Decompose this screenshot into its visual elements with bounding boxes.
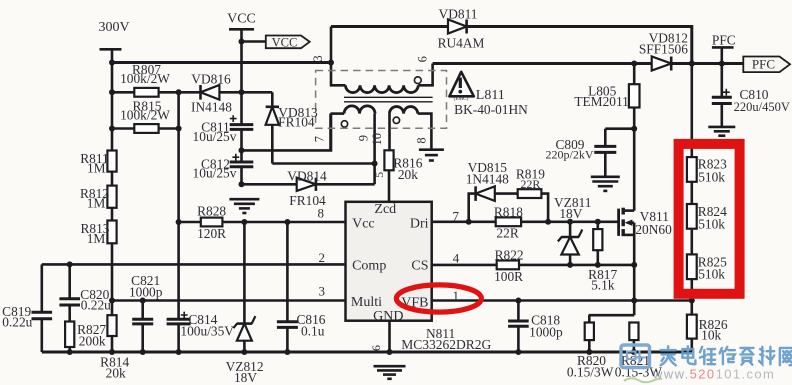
svg-text:22R: 22R	[496, 226, 518, 241]
svg-text:0.22u: 0.22u	[2, 314, 32, 329]
svg-text:VD811: VD811	[439, 6, 478, 21]
svg-text:510k: 510k	[698, 267, 725, 282]
svg-text:10u/25v: 10u/25v	[193, 165, 237, 180]
svg-text:3: 3	[311, 55, 325, 61]
svg-text:4: 4	[453, 251, 460, 266]
svg-text:20k: 20k	[106, 366, 126, 381]
svg-text:100k/2W: 100k/2W	[120, 107, 170, 122]
svg-text:GND: GND	[373, 309, 403, 324]
svg-text:Comp: Comp	[352, 259, 386, 274]
svg-text:VD816: VD816	[191, 72, 231, 87]
svg-text:10: 10	[370, 133, 384, 146]
svg-text:120R: 120R	[197, 226, 226, 241]
svg-text:5.1k: 5.1k	[591, 278, 615, 293]
svg-text:8: 8	[318, 206, 325, 221]
svg-text:1M: 1M	[87, 196, 106, 211]
svg-text:6: 6	[416, 56, 430, 62]
svg-text:PFC: PFC	[752, 57, 775, 72]
svg-text:20N60: 20N60	[635, 222, 672, 237]
svg-text:SFF1506: SFF1506	[639, 42, 688, 57]
svg-text:18V: 18V	[234, 370, 257, 385]
svg-text:R828: R828	[197, 204, 226, 219]
svg-text:Zcd: Zcd	[374, 202, 396, 217]
svg-text:1: 1	[452, 288, 459, 303]
svg-text:3: 3	[319, 284, 326, 299]
svg-text:22R: 22R	[520, 177, 540, 191]
svg-text:0.15/3W: 0.15/3W	[567, 364, 614, 379]
svg-text:CS: CS	[411, 259, 428, 274]
svg-text:R822: R822	[495, 247, 524, 262]
svg-text:1M: 1M	[87, 231, 106, 246]
svg-text:1M: 1M	[87, 161, 106, 176]
svg-text:L811: L811	[476, 88, 505, 103]
svg-text:8: 8	[415, 137, 429, 143]
svg-text:200k: 200k	[79, 334, 106, 349]
svg-text:Dri: Dri	[410, 216, 429, 231]
svg-text:1000p: 1000p	[529, 325, 563, 340]
svg-text:R818: R818	[494, 205, 523, 220]
svg-text:100R: 100R	[494, 269, 523, 284]
svg-text:BK-40-01HN: BK-40-01HN	[454, 102, 528, 117]
svg-text:100u/35V: 100u/35V	[180, 323, 234, 338]
svg-text:10k: 10k	[701, 328, 721, 343]
svg-text:300V: 300V	[98, 20, 129, 35]
svg-text:1000p: 1000p	[129, 284, 163, 299]
svg-text:VCC: VCC	[227, 12, 256, 27]
svg-text:9: 9	[357, 135, 371, 141]
svg-text:IN4148: IN4148	[191, 100, 232, 115]
svg-text:6: 6	[369, 345, 383, 351]
svg-text:0.1u: 0.1u	[301, 324, 325, 339]
svg-text:0.22u: 0.22u	[81, 297, 111, 312]
svg-text:VD814: VD814	[287, 169, 327, 184]
svg-text:10u/25v: 10u/25v	[193, 129, 237, 144]
svg-text:Multi: Multi	[351, 295, 382, 310]
svg-text:RU4AM: RU4AM	[438, 36, 485, 51]
svg-text:TEM2011: TEM2011	[574, 94, 629, 109]
svg-text:7: 7	[313, 136, 327, 142]
svg-text:MC33262DR2G: MC33262DR2G	[401, 337, 491, 352]
svg-text:100k/2W: 100k/2W	[120, 71, 170, 86]
svg-text:1N4148: 1N4148	[466, 172, 509, 187]
svg-text:220u/450V: 220u/450V	[734, 100, 790, 114]
svg-text:www.520101.com: www.520101.com	[652, 366, 775, 381]
svg-text:510k: 510k	[698, 169, 725, 184]
svg-text:Vcc: Vcc	[352, 216, 375, 231]
svg-text:20k: 20k	[398, 167, 418, 182]
svg-text:18V: 18V	[559, 206, 582, 221]
svg-text:510k: 510k	[698, 216, 725, 231]
svg-text:FR104: FR104	[278, 114, 315, 129]
svg-text:VCC: VCC	[272, 35, 298, 49]
svg-text:220p/2kV: 220p/2kV	[546, 147, 594, 161]
svg-text:2: 2	[319, 250, 326, 265]
svg-text:5: 5	[372, 172, 386, 178]
svg-text:7: 7	[452, 209, 459, 224]
svg-text:PFC: PFC	[712, 32, 736, 47]
